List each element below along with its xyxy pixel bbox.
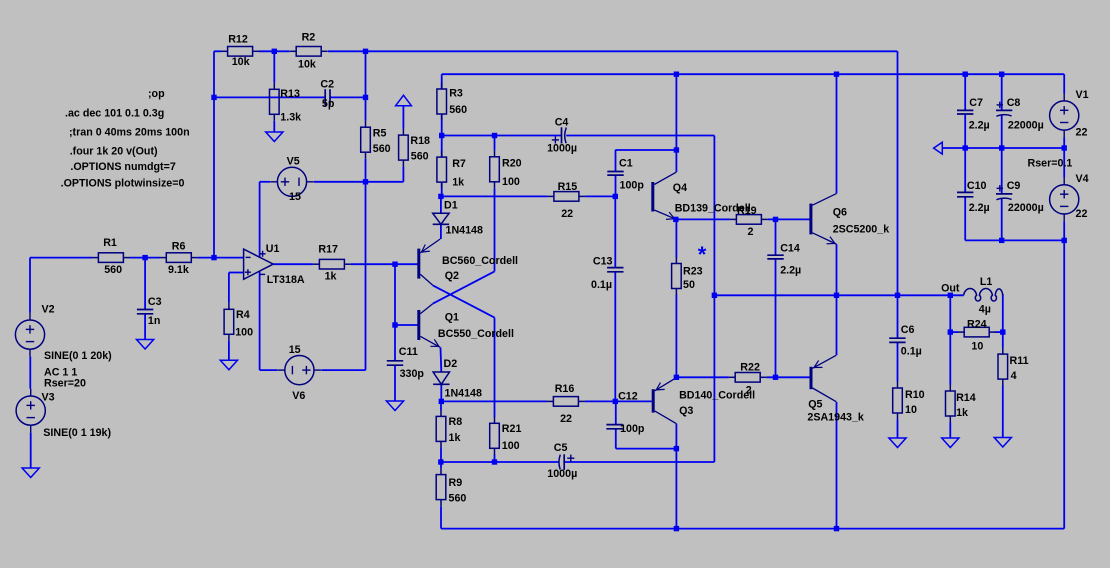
- svg-text:R18: R18: [410, 135, 430, 147]
- resistor R21: [490, 417, 500, 455]
- svg-text:1.3k: 1.3k: [280, 111, 301, 123]
- svg-text:R22: R22: [740, 361, 760, 373]
- node C8 top junction: [999, 72, 1004, 77]
- svg-text:R8: R8: [449, 416, 463, 428]
- wire C12 to Q3 collector: [616, 448, 677, 450]
- wire C9 bottom: [1001, 199, 1003, 240]
- node Q4 emitter junction: [673, 217, 678, 222]
- node R13 top junction: [272, 49, 277, 54]
- wire D1 top lead: [440, 196, 442, 213]
- svg-text:.four 1k 20 v(Out): .four 1k 20 v(Out): [70, 146, 158, 158]
- svg-text:100: 100: [502, 440, 520, 452]
- svg-text:R3: R3: [449, 88, 463, 100]
- svg-text:10k: 10k: [232, 56, 250, 68]
- resistor R19: [730, 215, 768, 225]
- svg-text:560: 560: [373, 143, 391, 155]
- svg-text:1k: 1k: [449, 432, 461, 444]
- wire C10 bottom: [964, 197, 966, 241]
- svg-text:.OPTIONS plotwinsize=0: .OPTIONS plotwinsize=0: [61, 177, 185, 189]
- svg-text:1k: 1k: [956, 407, 968, 419]
- svg-text:R17: R17: [318, 244, 338, 256]
- resistor R18: [399, 129, 409, 167]
- capacitor C12: [606, 425, 622, 429]
- svg-text:C3: C3: [148, 296, 162, 308]
- resistor R20: [490, 150, 500, 188]
- resistor R9: [436, 468, 446, 506]
- svg-text:560: 560: [449, 493, 467, 505]
- wire R8 top: [440, 401, 442, 410]
- svg-text:100: 100: [502, 176, 520, 188]
- svg-text:R2: R2: [302, 32, 316, 44]
- wire V5 right rail: [314, 181, 403, 183]
- wire C5 row left: [441, 461, 559, 463]
- wire Q2 collector diag: [433, 285, 495, 317]
- svg-text:R4: R4: [236, 309, 250, 321]
- wire V1 to mid rail: [1063, 138, 1065, 149]
- ground under C11: [386, 401, 403, 411]
- wire D2 junction to R16: [441, 400, 547, 402]
- wire bootstrap top right: [566, 135, 714, 137]
- svg-text:*: *: [698, 242, 707, 267]
- wire supply lower rail: [965, 239, 1064, 241]
- node Q3 emitter junction: [674, 375, 679, 380]
- capacitor C10: [957, 192, 973, 196]
- capacitor C8 polarized: [996, 102, 1012, 117]
- voltage source V6: [278, 356, 322, 385]
- node V4 bottom rail junction: [1062, 238, 1067, 243]
- svg-text:R6: R6: [172, 240, 186, 252]
- node Out junction: [948, 293, 953, 298]
- wire positive rail: [442, 73, 1064, 75]
- svg-text:Q3: Q3: [679, 405, 693, 417]
- node V1 V4 mid rail junction: [1062, 145, 1067, 150]
- capacitor C7: [957, 110, 973, 114]
- svg-text:R15: R15: [558, 181, 578, 193]
- node Q6 collector rail junction: [834, 72, 839, 77]
- wire C8 top: [1001, 74, 1003, 110]
- svg-text:R21: R21: [502, 423, 522, 435]
- node R3 R7 junction: [439, 133, 444, 138]
- resistor R10: [893, 382, 903, 420]
- wire R15 to VAS node: [585, 195, 615, 197]
- svg-text:R16: R16: [555, 383, 575, 395]
- voltage source V3: [16, 389, 45, 433]
- wire R18 bottom: [402, 167, 404, 182]
- node R20 top junction: [492, 133, 497, 138]
- wire bootstrap top left: [442, 135, 562, 137]
- wire right edge vertical: [1063, 240, 1065, 528]
- svg-text:R19: R19: [737, 205, 757, 217]
- node C2 right junction: [363, 95, 368, 100]
- wire V2 to R1: [30, 257, 92, 259]
- voltage source V2: [15, 313, 44, 357]
- node Q3 base C12 junction: [613, 399, 618, 404]
- wire Q3 base stub: [615, 400, 651, 402]
- svg-text:Rser=0.1: Rser=0.1: [1028, 158, 1073, 170]
- svg-text:C1: C1: [619, 158, 633, 170]
- svg-text:1N4148: 1N4148: [445, 387, 482, 399]
- node input junction R1 R6: [211, 255, 216, 260]
- wire R24 junction to R14: [949, 332, 951, 384]
- svg-text:D2: D2: [444, 358, 458, 370]
- svg-text:2.2µ: 2.2µ: [969, 202, 990, 214]
- wire C7 bottom: [964, 114, 966, 148]
- ground under C3: [137, 340, 154, 350]
- svg-text:.ac dec 101 0.1 0.3g: .ac dec 101 0.1 0.3g: [65, 108, 164, 120]
- svg-text:C14: C14: [780, 243, 800, 255]
- transistor Q1 BC550 (npn): [417, 304, 440, 348]
- svg-text:100: 100: [235, 327, 253, 339]
- svg-text:C2: C2: [320, 79, 334, 91]
- wire D1 junction to R15: [441, 195, 548, 197]
- wire R24 left: [950, 331, 958, 333]
- svg-text:5p: 5p: [322, 98, 335, 110]
- svg-text:R14: R14: [956, 392, 976, 404]
- node Q6 base junction: [773, 217, 778, 222]
- wire top feedback rail right: [328, 50, 897, 52]
- node Zobel feedback junction: [895, 293, 900, 298]
- svg-text:C7: C7: [969, 97, 983, 109]
- wire R13 bottom: [273, 121, 275, 132]
- wire R6 to opamp: [198, 257, 244, 259]
- node C7 bottom mid rail junction: [963, 145, 968, 150]
- wire R16 to Q3 base: [585, 400, 615, 402]
- transistor Q2 BC560 (pnp): [417, 239, 440, 285]
- node output emitters junction: [834, 293, 839, 298]
- svg-text:Q2: Q2: [445, 270, 459, 282]
- wire supply mid column lower: [365, 159, 367, 370]
- wire R3 top: [441, 74, 443, 89]
- resistor R16: [547, 397, 585, 407]
- node Q1 base junction: [392, 322, 397, 327]
- wire Q3 emitter to R22: [676, 376, 728, 378]
- wire Q5 collector vertical: [836, 402, 838, 529]
- wire C12 top: [615, 401, 617, 424]
- node Q3 collector bottom rail junction: [674, 526, 679, 531]
- resistor R22: [729, 373, 767, 383]
- wire C11 to ground: [394, 365, 396, 401]
- wire R4 to opamp plus: [229, 272, 244, 274]
- svg-text:C12: C12: [618, 390, 638, 402]
- wire Q3 collector lower: [675, 424, 677, 529]
- wire X to R21: [494, 318, 496, 418]
- ground under R11: [994, 438, 1011, 448]
- wire supply mid column upper: [365, 51, 367, 120]
- node D1 R7 R15 junction: [438, 194, 443, 199]
- svg-text:V4: V4: [1076, 173, 1089, 185]
- svg-text:50: 50: [683, 279, 695, 291]
- wire V6 left: [260, 369, 278, 371]
- node D2 R8 R16 junction: [439, 399, 444, 404]
- svg-text:L1: L1: [980, 276, 993, 288]
- svg-text:C13: C13: [593, 256, 613, 268]
- svg-text:C6: C6: [901, 324, 915, 336]
- ground under R13: [266, 132, 283, 142]
- wire V4 bottom: [1063, 221, 1065, 240]
- wire C1 bottom: [615, 175, 617, 196]
- wire flag to R18: [402, 106, 404, 129]
- capacitor C9 polarized: [996, 185, 1012, 200]
- svg-text:U1: U1: [266, 243, 280, 255]
- voltage source V4: [1050, 177, 1079, 221]
- wire C7 top: [964, 74, 966, 110]
- svg-text:R10: R10: [905, 389, 925, 401]
- svg-text:2.2µ: 2.2µ: [780, 265, 801, 277]
- wire Q1 emitter to D2: [440, 347, 443, 372]
- svg-text:4µ: 4µ: [979, 304, 991, 316]
- node Q5 base junction: [773, 375, 778, 380]
- wire R13 top: [273, 51, 275, 83]
- svg-text:100p: 100p: [620, 423, 645, 435]
- node C7 top junction: [963, 72, 968, 77]
- wire V5 to opamp corner: [260, 181, 270, 183]
- wire Q4 collector upper: [675, 150, 677, 172]
- svg-text:R20: R20: [502, 158, 522, 170]
- svg-text:2.2µ: 2.2µ: [969, 120, 990, 132]
- wire Q1 collector diag: [433, 271, 495, 303]
- svg-text:1000µ: 1000µ: [547, 143, 577, 155]
- svg-text:22000µ: 22000µ: [1008, 120, 1044, 132]
- svg-text:560: 560: [449, 104, 467, 116]
- svg-text:.OPTIONS numdgt=7: .OPTIONS numdgt=7: [70, 161, 175, 173]
- wire C1 top: [615, 150, 617, 172]
- ground under R14: [942, 438, 959, 448]
- svg-text:BC550_Cordell: BC550_Cordell: [438, 328, 514, 340]
- wire R23 bottom: [675, 295, 677, 378]
- capacitor C2: [325, 89, 330, 105]
- transistor Q5 2SA1943 (pnp): [810, 355, 837, 401]
- svg-text:AC 1 1: AC 1 1: [44, 366, 77, 378]
- svg-text:Q4: Q4: [673, 182, 687, 194]
- svg-text:D1: D1: [444, 200, 458, 212]
- wire Out to R24 junction: [949, 295, 951, 332]
- wire R17 to Q2 base: [351, 263, 418, 265]
- wire C14 top: [775, 219, 777, 255]
- wire C6 top: [897, 295, 899, 338]
- svg-text:SINE(0 1 20k): SINE(0 1 20k): [44, 350, 112, 362]
- svg-text:22: 22: [1076, 208, 1088, 220]
- svg-text:10: 10: [905, 404, 917, 416]
- svg-text:C5: C5: [554, 442, 568, 454]
- wire D2 bottom: [440, 384, 442, 401]
- svg-text:Q1: Q1: [445, 311, 459, 323]
- voltage source V1: [1050, 94, 1079, 138]
- node R24 right junction: [1000, 329, 1005, 334]
- svg-text:1k: 1k: [325, 271, 337, 283]
- power flag left arrow on mid supply rail: [934, 142, 943, 154]
- wire R14 bottom: [949, 423, 951, 439]
- wire Q1 base: [395, 324, 418, 326]
- wire C3 bottom: [144, 314, 146, 340]
- voltage source V5: [270, 167, 314, 196]
- svg-text:2: 2: [748, 226, 754, 238]
- svg-text:Rser=20: Rser=20: [44, 378, 86, 390]
- svg-text:C11: C11: [399, 346, 418, 358]
- wire top feedback rail left: [214, 50, 221, 52]
- wire base tie vertical: [394, 264, 396, 361]
- svg-text:R11: R11: [1010, 355, 1029, 367]
- svg-text:BC560_Cordell: BC560_Cordell: [442, 255, 518, 267]
- wire C12 bottom: [615, 429, 617, 449]
- svg-text:C8: C8: [1007, 97, 1021, 109]
- wire opamp V+ vertical: [259, 182, 261, 257]
- wire Q4 emitter to R19: [676, 218, 730, 220]
- svg-text:R13: R13: [280, 88, 300, 100]
- wire feedback column x214: [213, 51, 215, 257]
- svg-text:2SA1943_k: 2SA1943_k: [807, 412, 864, 424]
- wire R20 to X: [494, 188, 496, 271]
- node C9 bottom rail junction: [999, 238, 1004, 243]
- svg-text:330p: 330p: [400, 368, 425, 380]
- wire R11 bottom: [1002, 386, 1004, 438]
- svg-text:Out: Out: [941, 282, 960, 294]
- wire C2 row right: [330, 96, 366, 98]
- ground under V3: [22, 468, 39, 478]
- node R21 C5 junction: [492, 459, 497, 464]
- wire R4 bottom: [228, 341, 230, 360]
- wire C9 top: [1001, 148, 1003, 194]
- wire R20 top: [494, 136, 496, 151]
- resistor R11: [998, 348, 1008, 386]
- wire R19 to Q6 base: [768, 218, 811, 220]
- svg-text:BD140_Cordell: BD140_Cordell: [679, 389, 755, 401]
- svg-text:V1: V1: [1076, 89, 1089, 101]
- resistor R5: [361, 121, 371, 159]
- resistor R12: [221, 47, 259, 57]
- resistor R15: [547, 192, 585, 202]
- wire bootstrap vertical: [713, 136, 715, 463]
- svg-text:Q6: Q6: [833, 207, 847, 219]
- node bootstrap output junction: [712, 293, 717, 298]
- resistor R4: [224, 303, 234, 341]
- wire opamp out to R17: [273, 263, 313, 265]
- svg-text:15: 15: [289, 191, 301, 203]
- svg-text:10k: 10k: [298, 58, 316, 70]
- wire C1 node to Q4 column: [615, 149, 676, 151]
- svg-text:;tran 0 40ms 20ms 100n: ;tran 0 40ms 20ms 100n: [69, 127, 190, 139]
- resistor R6: [160, 253, 198, 263]
- wire R10 bottom: [897, 420, 899, 439]
- inductor L1: [964, 288, 1003, 301]
- wire R9 bottom: [440, 506, 442, 528]
- resistor R1: [92, 253, 130, 263]
- svg-text:;op: ;op: [148, 88, 165, 100]
- node V5 rail junction: [363, 179, 368, 184]
- wire R24 right: [995, 331, 1003, 333]
- wire R22 to Q5 base: [767, 376, 811, 378]
- capacitor C13: [607, 268, 623, 272]
- wire R21 bottom: [494, 455, 496, 463]
- wire bottom rail: [441, 528, 1064, 530]
- wire Q6 collector vertical: [836, 74, 838, 193]
- wire V6 right: [321, 369, 365, 371]
- wire C3 top: [144, 258, 146, 310]
- svg-text:0.1µ: 0.1µ: [591, 279, 612, 291]
- wire C14 bottom: [775, 259, 777, 377]
- node Q4 collector rail junction: [674, 72, 679, 77]
- resistor R14: [946, 385, 956, 423]
- ground under R4: [220, 360, 237, 370]
- svg-text:560: 560: [411, 151, 429, 163]
- svg-text:15: 15: [289, 344, 301, 356]
- resistor R13: [270, 83, 280, 121]
- svg-text:R7: R7: [452, 158, 466, 170]
- svg-text:9.1k: 9.1k: [168, 264, 189, 276]
- svg-text:2SC5200_k: 2SC5200_k: [833, 224, 890, 236]
- wire input left vertical: [29, 258, 31, 313]
- svg-text:V2: V2: [42, 304, 55, 316]
- svg-text:1n: 1n: [148, 315, 160, 327]
- svg-text:22000µ: 22000µ: [1008, 202, 1044, 214]
- svg-text:1N4148: 1N4148: [446, 225, 483, 237]
- capacitor C14: [767, 255, 783, 259]
- wire C6 to R10: [897, 342, 899, 381]
- wire R23 top: [675, 219, 677, 257]
- svg-text:1k: 1k: [452, 177, 464, 189]
- resistor R2: [290, 47, 328, 57]
- wire V3 to ground: [30, 433, 32, 468]
- node R24 left junction: [948, 329, 953, 334]
- svg-text:R23: R23: [683, 266, 703, 278]
- wire R3 to R7: [441, 114, 443, 156]
- wire V4 top: [1063, 148, 1065, 177]
- op-amp U1: [244, 249, 274, 279]
- node R8 R9 C5 junction: [438, 459, 443, 464]
- svg-text:2: 2: [746, 385, 752, 397]
- diode D2: [433, 372, 449, 384]
- svg-text:C4: C4: [555, 117, 569, 129]
- capacitor C5 polarized: [559, 454, 574, 470]
- capacitor C1: [607, 172, 623, 176]
- diode D1: [433, 213, 449, 224]
- svg-text:100p: 100p: [620, 180, 645, 192]
- node feedback C2 junction: [211, 95, 216, 100]
- node VAS junction: [613, 194, 618, 199]
- svg-text:1000µ: 1000µ: [547, 468, 577, 480]
- wire Q6 emitter vertical: [836, 244, 838, 355]
- wire C5 row right: [564, 461, 714, 463]
- svg-text:0.1µ: 0.1µ: [901, 346, 922, 358]
- wire top feedback rail mid1: [259, 50, 290, 52]
- wire mid supply rail: [942, 147, 1064, 149]
- svg-text:R5: R5: [373, 127, 387, 139]
- wire C10 top: [964, 148, 966, 192]
- transistor Q4 BD139 (npn): [651, 172, 676, 219]
- svg-text:V3: V3: [42, 392, 55, 404]
- wire Q4 collector vertical: [675, 74, 677, 150]
- node Q3 collector C12 junction: [674, 446, 679, 451]
- wire V2 to V3: [29, 357, 31, 389]
- resistor R23: [672, 257, 682, 295]
- ground under R10: [889, 438, 906, 448]
- svg-text:560: 560: [104, 264, 122, 276]
- svg-text:V5: V5: [287, 156, 300, 168]
- svg-text:C9: C9: [1007, 180, 1021, 192]
- svg-text:V6: V6: [292, 390, 305, 402]
- resistor R24: [958, 327, 996, 337]
- svg-text:R24: R24: [967, 319, 987, 331]
- node Q5 collector bottom rail junction: [834, 526, 839, 531]
- wire R4 top: [228, 273, 230, 303]
- svg-text:10: 10: [971, 340, 983, 352]
- power flag up arrow above R18: [396, 95, 412, 105]
- capacitor C6: [889, 338, 905, 342]
- resistor R17: [313, 259, 351, 269]
- wire R1 to R6: [130, 257, 160, 259]
- transistor Q3 BD140 (pnp): [652, 378, 677, 424]
- svg-text:SINE(0 1 19k): SINE(0 1 19k): [43, 427, 111, 439]
- node R2 output junction: [363, 49, 368, 54]
